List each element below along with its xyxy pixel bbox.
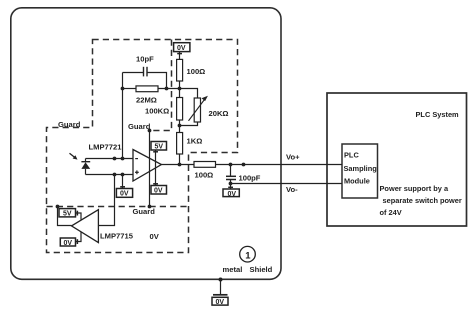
svg-text:100Ω: 100Ω: [187, 67, 206, 76]
wire: 10pF branch top: [123, 72, 144, 74]
node: buffer output on guard: [56, 205, 60, 209]
op-amp U1 LMP7721: [133, 150, 161, 182]
node 1 marker: [240, 246, 256, 262]
wire: +input to 0V box: [122, 175, 124, 189]
node: cap junction: [229, 163, 233, 167]
node: inv input dots: [113, 157, 117, 161]
svg-text:of 24V: of 24V: [380, 208, 402, 217]
svg-text:0V: 0V: [177, 45, 186, 52]
svg-text:Shield: Shield: [250, 265, 273, 274]
svg-text:20KΩ: 20KΩ: [209, 109, 229, 118]
node: 10pF/22M right junction: [165, 87, 169, 91]
node: Vo+ dot: [242, 163, 246, 167]
wire: op-amp output: [161, 164, 195, 166]
svg-text:0V: 0V: [154, 188, 163, 195]
wire: to 20K branch: [180, 89, 198, 99]
node: output junction: [178, 163, 182, 167]
guard divider dashed (top network box left edge): [150, 40, 172, 131]
wire: +input to buffer input: [98, 175, 114, 226]
svg-text:Guard: Guard: [128, 122, 151, 131]
node: feedback/22M junction: [121, 87, 125, 91]
node: 100K/20K bottom junction: [178, 124, 182, 128]
svg-text:PLC System: PLC System: [416, 110, 460, 119]
capacitor 10pF: [143, 67, 145, 77]
svg-text:10pF: 10pF: [136, 55, 154, 64]
svg-text:0V: 0V: [228, 191, 237, 198]
PLC sampling module U3: [342, 144, 378, 198]
capacitor 100pF: [230, 165, 232, 177]
svg-text:metal: metal: [223, 265, 243, 274]
guard dashed boundary: [47, 40, 238, 253]
svg-text:100KΩ: 100KΩ: [145, 107, 169, 116]
wire: non-inverting input: [86, 174, 134, 176]
svg-text:Sampling: Sampling: [344, 164, 378, 173]
resistor 20KΩ variable: [194, 98, 200, 122]
wire: buffer output to guard: [58, 207, 72, 226]
node: guard top: [148, 129, 152, 133]
svg-text:Guard: Guard: [58, 120, 81, 129]
metal shield enclosure: [11, 8, 281, 280]
wire: U2 5V pin: [76, 213, 82, 220]
resistor 100Ω (to 0V): [179, 52, 181, 60]
svg-text:Module: Module: [344, 177, 370, 186]
svg-text:0V: 0V: [64, 240, 73, 247]
svg-text:Guard: Guard: [133, 207, 156, 216]
photodiode D1: [85, 159, 87, 162]
resistor 22MΩ: [123, 88, 137, 90]
svg-text:22MΩ: 22MΩ: [136, 96, 157, 105]
svg-text:100pF: 100pF: [239, 174, 261, 183]
svg-text:0V: 0V: [120, 191, 129, 198]
light arrow: [70, 153, 76, 158]
svg-text:PLC: PLC: [344, 151, 359, 160]
svg-text:5V: 5V: [63, 211, 72, 218]
power 0V box (shield): [212, 297, 228, 305]
svg-text:Power support by a: Power support by a: [380, 184, 449, 193]
power 0V box (100pF): [223, 189, 239, 197]
svg-text:LMP7721: LMP7721: [89, 143, 123, 152]
node: +input dots: [113, 173, 117, 177]
power 0V box (top): [174, 43, 190, 52]
resistor 100Ω output series: [194, 162, 216, 168]
wire: feedback vertical: [122, 73, 124, 159]
resistor 1KΩ: [179, 126, 181, 133]
power 5V box (U2): [59, 209, 76, 217]
power 0V box (U2): [60, 238, 75, 246]
ground bar: [213, 294, 228, 296]
op-amp U2 LMP7715 (guard buffer): [72, 210, 99, 243]
svg-text:0V: 0V: [150, 232, 160, 241]
svg-text:1KΩ: 1KΩ: [187, 137, 203, 146]
power 0V box (+input): [116, 189, 132, 198]
wire: inverting input: [86, 158, 134, 160]
wire: Vo+ line: [216, 164, 343, 166]
svg-text:1: 1: [245, 250, 251, 261]
svg-text:LMP7715: LMP7715: [100, 232, 134, 241]
node: top divider junction: [178, 87, 182, 91]
svg-text:5V: 5V: [155, 144, 164, 151]
svg-text:Vo+: Vo+: [286, 153, 300, 162]
wire: U2 0V pin: [76, 232, 82, 242]
wire: 10pF branch right: [147, 73, 167, 89]
node: guard bottom: [148, 205, 152, 209]
wire: Vo- line: [231, 183, 343, 185]
wire: U1 supply rail: [155, 150, 157, 186]
wire: shield to 0V: [220, 280, 222, 295]
node: cap/Vo- junction: [229, 182, 233, 186]
resistor 100KΩ: [179, 89, 181, 98]
svg-text:0V: 0V: [216, 299, 225, 306]
node: shield ground tap: [219, 278, 223, 282]
PLC system box: [327, 93, 467, 226]
svg-text:Vo-: Vo-: [286, 185, 298, 194]
wire: guard stem through U1: [149, 131, 151, 207]
svg-text:100Ω: 100Ω: [195, 171, 214, 180]
power 5V box (U1): [151, 142, 167, 151]
guard divider dashed (lower guard line): [47, 206, 189, 208]
power 0V box (U1): [151, 186, 167, 195]
svg-text:separate switch power: separate switch power: [383, 196, 462, 205]
